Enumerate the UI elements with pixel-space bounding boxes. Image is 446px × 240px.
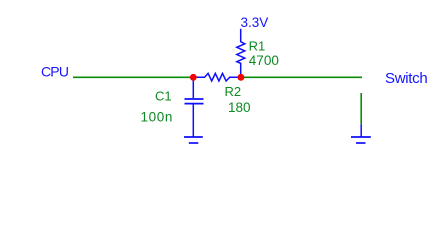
svg-text:CPU: CPU: [41, 63, 69, 79]
svg-text:4700: 4700: [249, 53, 279, 68]
svg-text:R1: R1: [249, 39, 266, 54]
svg-text:3.3V: 3.3V: [241, 15, 269, 30]
svg-text:100n: 100n: [141, 109, 173, 124]
svg-text:Switch: Switch: [385, 70, 427, 87]
svg-text:R2: R2: [225, 84, 242, 99]
svg-text:180: 180: [228, 100, 251, 115]
svg-text:C1: C1: [155, 89, 172, 104]
